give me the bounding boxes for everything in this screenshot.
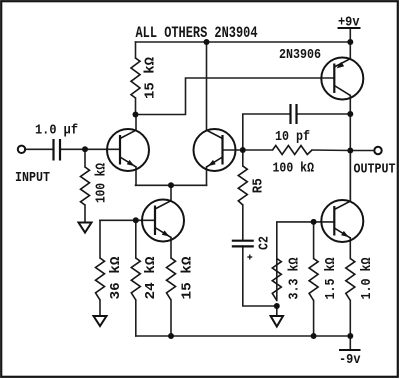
junction bottom rail 1.5k <box>311 333 317 339</box>
wire Q2 emitter to 15k <box>170 237 172 258</box>
ground 36k <box>94 316 107 326</box>
terminal input <box>18 146 25 153</box>
svg-text:10 pf: 10 pf <box>275 129 310 145</box>
svg-text:1.0 kΩ: 1.0 kΩ <box>359 257 375 299</box>
resistor 100k input <box>81 167 90 205</box>
svg-text:24 kΩ: 24 kΩ <box>143 256 159 300</box>
junction C2 3.3k ground <box>274 303 280 309</box>
wire 36k bottom to ground <box>99 300 101 316</box>
capacitor C1 input 1.0uf <box>54 139 61 161</box>
wire 1.5k to Q4 base junction <box>313 222 315 259</box>
capacitor C2 <box>232 241 254 247</box>
resistor 24k <box>131 258 140 300</box>
svg-text:R5: R5 <box>251 178 267 193</box>
supply +9v bar <box>338 27 361 29</box>
wire 24k top <box>135 220 137 258</box>
svg-text:OUTPUT: OUTPUT <box>354 162 396 178</box>
wire 15k2 bottom to rail <box>170 300 172 336</box>
wire 24k bottom to rail <box>135 300 137 336</box>
wire input junction down to 100k <box>84 149 86 167</box>
ground C2 <box>271 316 283 327</box>
wire top rail <box>136 41 351 43</box>
wire cap branch <box>243 114 290 150</box>
svg-text:100 kΩ: 100 kΩ <box>94 163 110 203</box>
wire 100k bottom to ground <box>84 205 86 223</box>
svg-text:C2: C2 <box>257 236 273 250</box>
wire Q4 emitter to 1.0k <box>349 238 351 259</box>
svg-text:ALL OTHERS 2N3904: ALL OTHERS 2N3904 <box>136 24 258 42</box>
wire Q2 collector <box>170 185 172 200</box>
resistor 1.5k <box>309 259 318 301</box>
wire ground junction stub <box>276 306 278 316</box>
junction bottom rail 1.0k -9v <box>347 333 353 339</box>
wire 1.5k bottom to rail <box>313 301 315 337</box>
wire emitter rail Q1-Q3 <box>136 184 207 186</box>
ground input bias <box>79 223 92 233</box>
wire 100k fb right <box>312 149 350 152</box>
svg-text:1.0 µf: 1.0 µf <box>35 123 78 139</box>
resistor 1.0k <box>346 259 355 301</box>
wire 100k fb left <box>243 149 273 151</box>
svg-text:15 kΩ: 15 kΩ <box>143 56 159 99</box>
wire PNP collector down <box>349 95 351 114</box>
junction Q2 base 24k <box>133 217 139 223</box>
svg-text:+9v: +9v <box>338 15 360 31</box>
wire Q3 collector up <box>206 42 208 130</box>
supply -9v bar <box>339 349 361 351</box>
junction PNP collector cap branch <box>347 111 353 117</box>
junction 15k Q1 collector <box>133 112 139 118</box>
C2 plus sign <box>247 255 252 260</box>
wire node to R5 <box>242 150 244 166</box>
resistor R5 <box>238 166 247 205</box>
svg-text:15 kΩ: 15 kΩ <box>180 256 196 300</box>
svg-text:36 kΩ: 36 kΩ <box>108 256 124 300</box>
wire cap to right rail <box>297 113 350 115</box>
wire cap to Q1 base <box>61 148 120 150</box>
svg-text:INPUT: INPUT <box>15 170 50 186</box>
wire 36k top <box>99 220 101 258</box>
wire bottom rail <box>136 335 350 337</box>
transistor Q2 <box>142 200 184 242</box>
wire C2 bottom to ground junction <box>243 246 277 306</box>
wire Q1 emitter down <box>135 167 137 185</box>
wire Q4 collector up <box>349 151 351 202</box>
transistor Q3 mirrored <box>194 129 236 171</box>
terminal output <box>374 147 381 154</box>
resistor 3.3k <box>272 259 281 301</box>
junction top rail +9v <box>347 39 353 45</box>
wire right rail <box>349 114 351 201</box>
svg-text:-9v: -9v <box>339 352 361 368</box>
junction Q3 base R5 feedback <box>240 147 246 153</box>
transistor Q5 PNP 2N3906 <box>321 58 363 100</box>
resistor 100k feedback <box>273 146 313 155</box>
svg-text:3.3 kΩ: 3.3 kΩ <box>287 257 303 299</box>
wire R5 to C2 <box>242 205 244 240</box>
capacitor 10pf <box>291 104 297 124</box>
wire 1.0k bottom to rail and -9v <box>349 301 351 351</box>
junction bottom rail 15k <box>168 333 174 339</box>
junction emitter rail Q2 collector <box>168 182 174 188</box>
transistor Q4 <box>321 200 363 242</box>
svg-text:100 kΩ: 100 kΩ <box>273 161 315 177</box>
wire +9v down <box>349 28 351 59</box>
wire Q1 collector up <box>135 115 137 131</box>
junction output node <box>347 148 353 154</box>
transistor Q1 <box>107 129 149 171</box>
wire 3.3k top to Q4 base <box>277 222 335 301</box>
svg-text:1.5 kΩ: 1.5 kΩ <box>323 257 339 299</box>
wire output <box>350 150 374 152</box>
wire Q3 base to node <box>223 149 243 151</box>
resistor 15k bottom <box>167 258 176 300</box>
svg-text:2N3906: 2N3906 <box>279 47 321 63</box>
junction Q4 base 1.5k <box>311 219 317 225</box>
wire link junction to PNP base <box>136 78 335 115</box>
wire 15k to rail <box>135 42 137 58</box>
wire input terminal to cap <box>25 148 52 150</box>
junction top rail Q3 collector <box>204 39 210 45</box>
wire 15k bottom to junction <box>135 98 137 115</box>
resistor 36k <box>96 258 105 300</box>
wire Q3 emitter down <box>206 167 208 185</box>
resistor R 15k top <box>131 58 140 98</box>
wire Q2 base <box>100 219 155 221</box>
junction input node <box>82 146 88 152</box>
